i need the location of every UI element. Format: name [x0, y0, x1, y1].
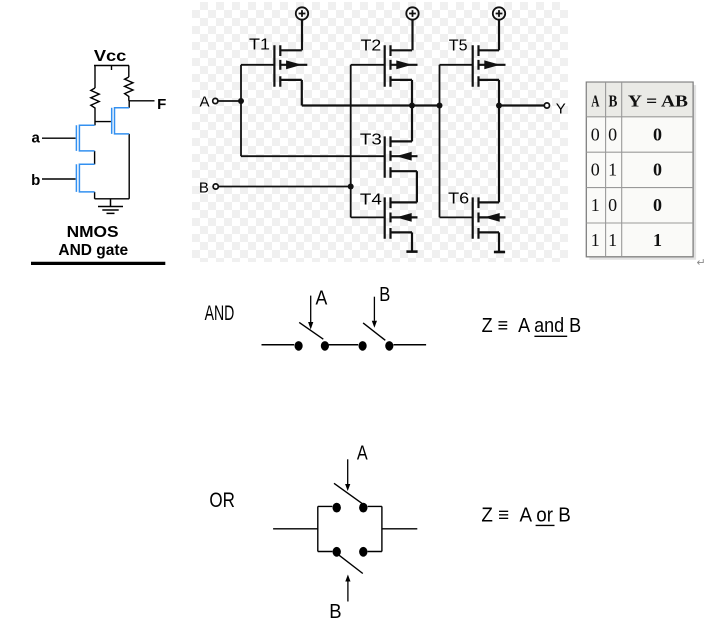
- svg-text:OR: OR: [209, 489, 235, 512]
- svg-text:1: 1: [591, 230, 600, 250]
- svg-text:↵: ↵: [697, 257, 706, 269]
- transistor Q3 (output): [112, 108, 130, 134]
- svg-text:0: 0: [591, 124, 600, 144]
- svg-text:0: 0: [653, 160, 662, 180]
- OR frame top segments: [318, 505, 382, 507]
- transistor T4: [385, 197, 418, 238]
- wire NAND node riser to T5 and T6 gates: [439, 65, 441, 218]
- svg-text:T5: T5: [449, 38, 468, 55]
- svg-text:Y = AB: Y = AB: [628, 92, 688, 111]
- switch SB blade: [363, 323, 385, 340]
- svg-text:A: A: [591, 92, 600, 111]
- wire OR left: [273, 528, 318, 530]
- arrowhead B (or): [345, 575, 350, 582]
- svg-text:T3: T3: [360, 132, 382, 149]
- switch SB blade (bottom branch): [339, 555, 363, 573]
- contact dot 1: [295, 341, 303, 351]
- contact dot 4: [385, 341, 393, 351]
- wire OR right: [382, 528, 417, 530]
- contact dot top-left: [333, 503, 341, 513]
- contact dot 3: [359, 341, 367, 351]
- svg-text:T2: T2: [361, 38, 382, 55]
- svg-text:1: 1: [608, 230, 617, 250]
- wire A riser to T1 and T3 gates: [240, 65, 242, 156]
- svg-text:b: b: [31, 172, 40, 189]
- ground symbol: [98, 199, 123, 214]
- wire NAND node row: [302, 104, 440, 106]
- OR network frame right: [381, 506, 383, 551]
- wire Q3 source to ground rail: [128, 134, 130, 199]
- svg-text:T1: T1: [249, 37, 270, 54]
- svg-text:Vcc: Vcc: [94, 48, 127, 65]
- input B terminal: [213, 184, 218, 189]
- arrowhead A (or): [345, 484, 350, 491]
- contact dot top-right: [359, 503, 367, 513]
- svg-text:T4: T4: [360, 192, 382, 209]
- Vcc power rail: [94, 66, 129, 71]
- svg-text:0: 0: [653, 124, 662, 144]
- transistor T1: [274, 45, 307, 86]
- svg-text:Z ≡ A or B: Z ≡ A or B: [481, 504, 570, 526]
- truth table grid lines: [586, 82, 693, 257]
- wire to T5 gate: [440, 64, 473, 66]
- wire B riser to T2 and T4 gates: [350, 65, 352, 218]
- svg-text:0: 0: [591, 160, 600, 180]
- wire R2 to node F: [128, 99, 130, 101]
- wire input b: [42, 178, 76, 180]
- transistor T2: [385, 45, 418, 86]
- wire T1 source down to NAND node: [301, 80, 303, 106]
- wire AND right segment: [394, 344, 427, 346]
- actuator arrow B: [347, 581, 349, 602]
- svg-text:1: 1: [591, 195, 600, 215]
- svg-text:T6: T6: [448, 191, 469, 208]
- wire Vcc rail to resistor R2: [128, 66, 130, 78]
- underline of and: [534, 335, 567, 337]
- wire to T6 gate: [440, 216, 473, 218]
- ground rail wire: [95, 198, 130, 200]
- wire F to Q3 drain: [128, 101, 130, 108]
- wire AND middle segment: [329, 344, 359, 346]
- truth table shadow: [589, 85, 696, 260]
- resistor R1: [91, 88, 99, 110]
- wire B to T2 gate: [351, 64, 385, 66]
- wire AND left segment: [262, 344, 295, 346]
- power symbol VDD1: [301, 19, 303, 50]
- svg-text:B: B: [608, 92, 617, 111]
- svg-text:Y: Y: [556, 100, 566, 117]
- output Y terminal: [544, 103, 549, 108]
- OR frame bottom segments: [318, 551, 382, 553]
- transistor T3: [385, 136, 418, 177]
- arrowhead B: [372, 321, 377, 328]
- node B junction: [348, 184, 354, 190]
- wire R1 to gate node G: [94, 110, 96, 125]
- contact dot 2: [321, 341, 329, 351]
- power symbol VDD3: [498, 19, 500, 50]
- svg-text:F: F: [157, 96, 166, 113]
- wire Q2 source to ground rail: [94, 192, 96, 199]
- svg-text:NMOS: NMOS: [67, 224, 119, 241]
- svg-text:1: 1: [608, 160, 617, 180]
- switch SA blade (top branch): [334, 483, 363, 504]
- node NAND junction at T2/T3: [409, 103, 415, 109]
- svg-text:Z ≡ A and B: Z ≡ A and B: [482, 315, 581, 337]
- wire T3 source to T4 drain: [416, 171, 418, 202]
- svg-text:B: B: [199, 180, 209, 197]
- svg-text:a: a: [32, 130, 41, 147]
- transistor Q2 (input b): [76, 164, 94, 192]
- wire A to T1 gate: [241, 64, 274, 66]
- truth table header background: [587, 83, 693, 117]
- wire input a: [42, 137, 76, 139]
- contact dot bottom-right: [359, 547, 367, 557]
- svg-text:1: 1: [653, 230, 662, 250]
- svg-text:B: B: [379, 284, 390, 306]
- wire T6 source to ground: [498, 232, 500, 251]
- input A terminal: [213, 98, 218, 103]
- wire T4 source to ground: [411, 232, 413, 251]
- transistor T5: [473, 45, 506, 86]
- contact dot bottom-left: [333, 547, 341, 557]
- wire Q1 source to Q2 drain: [94, 151, 96, 164]
- ground symbol T4: [406, 250, 417, 253]
- wire B input: [218, 186, 350, 188]
- actuator arrow A: [310, 296, 312, 322]
- thick underline bar: [31, 262, 165, 265]
- node A junction: [238, 98, 244, 104]
- wire node F output: [129, 100, 155, 102]
- truth table body: [586, 82, 693, 257]
- svg-text:A: A: [357, 443, 368, 465]
- svg-text:0: 0: [653, 195, 662, 215]
- wire T2 source / T3 drain riser: [411, 80, 413, 141]
- svg-text:B: B: [329, 601, 341, 621]
- svg-text:A: A: [200, 93, 210, 110]
- svg-text:AND gate: AND gate: [58, 242, 128, 259]
- actuator arrow A: [347, 459, 349, 484]
- wire Vcc rail to resistor R1: [94, 66, 96, 89]
- OR network frame left: [317, 506, 319, 551]
- wire B to T4 gate: [351, 216, 385, 218]
- arrowhead A: [308, 322, 313, 330]
- wire T5 source / T6 drain riser: [498, 80, 500, 202]
- node NAND junction at riser: [437, 103, 443, 109]
- ground symbol T6: [494, 251, 505, 254]
- transistor T6: [473, 197, 506, 238]
- switch SA blade: [299, 322, 323, 339]
- transistor Q1 (input a): [76, 125, 94, 151]
- resistor R2: [125, 77, 133, 99]
- power symbol VDD2: [411, 19, 413, 50]
- svg-text:AND: AND: [205, 302, 235, 325]
- wire Y output: [499, 104, 544, 106]
- svg-text:0: 0: [608, 124, 617, 144]
- svg-text:A: A: [316, 288, 328, 310]
- wire A to T3 gate: [241, 155, 385, 157]
- wire node G to Q3 gate: [95, 121, 111, 123]
- wire A input: [218, 100, 241, 102]
- svg-text:0: 0: [608, 195, 617, 215]
- node Y junction: [496, 103, 502, 109]
- actuator arrow B: [373, 297, 375, 321]
- underline of or: [536, 524, 555, 526]
